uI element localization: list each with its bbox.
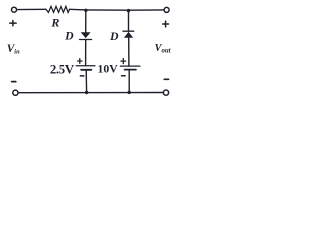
label Vout — [155, 43, 172, 55]
wire top-left to resistor — [17, 8, 46, 10]
diode D2 (cathode bar top, anode bottom) — [123, 31, 134, 38]
wire node B to terminal top-right — [129, 9, 164, 11]
diode D1 (anode top, cathode bar bottom) — [80, 32, 92, 39]
svg-text:D: D — [109, 29, 119, 43]
plus sign battery 2.5V — [78, 59, 82, 64]
wire battery 2.5V to bottom node C — [85, 70, 87, 93]
resistor R — [46, 6, 70, 12]
plus sign top-left — [10, 21, 16, 26]
svg-text:R: R — [50, 15, 59, 29]
node C (junction bottom of branch 1) — [85, 91, 88, 94]
terminal top-right — [164, 7, 169, 12]
svg-text:Vout: Vout — [155, 43, 172, 55]
battery 2.5V (top long plate +, bottom short plate -) — [76, 66, 95, 70]
terminal bottom-right — [163, 90, 168, 95]
svg-text:D: D — [64, 28, 74, 42]
value label 10V — [98, 63, 119, 76]
svg-text:10V: 10V — [98, 63, 119, 76]
label Vin — [7, 43, 20, 55]
terminal bottom-left — [13, 90, 18, 95]
node B (junction top of branch 2) — [127, 9, 130, 12]
wire diode D1 to battery 2.5V — [85, 40, 87, 66]
wire node A down to diode D1 — [85, 10, 87, 32]
wire diode D2 to battery 10V — [128, 38, 130, 66]
svg-text:Vin: Vin — [7, 43, 20, 55]
plus sign battery 10V — [121, 59, 126, 64]
terminal top-left — [12, 7, 17, 12]
value label 2.5V — [50, 63, 75, 77]
minus sign battery 2.5V — [80, 75, 83, 77]
wire bottom — [18, 92, 163, 94]
node A (junction top of branch 1) — [84, 9, 87, 12]
minus sign battery 10V — [122, 75, 126, 77]
wire node A to node B — [86, 9, 129, 11]
label D (diode D2) — [109, 29, 119, 43]
svg-text:2.5V: 2.5V — [50, 63, 75, 77]
label R — [50, 15, 59, 29]
wire node B down to diode D2 — [128, 11, 130, 32]
wire battery 10V to bottom node D — [128, 70, 130, 93]
node D (junction bottom of branch 2) — [128, 91, 131, 94]
minus sign bottom-right — [164, 78, 168, 80]
label D (diode D1) — [64, 28, 74, 42]
battery 10V (top long plate +, bottom short plate -) — [120, 66, 139, 70]
plus sign top-right — [163, 21, 169, 27]
wire resistor to node A — [70, 8, 86, 11]
minus sign bottom-left — [12, 81, 16, 83]
